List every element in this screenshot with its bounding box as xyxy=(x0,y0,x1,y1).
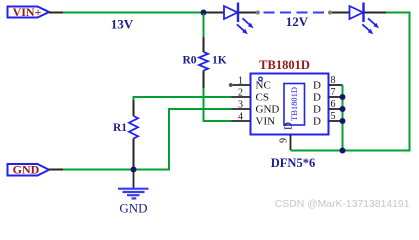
IC U1 TB1801D xyxy=(251,58,329,135)
svg-text:D: D xyxy=(313,104,321,116)
port GND xyxy=(8,163,50,177)
port VIN+ xyxy=(8,5,50,19)
pin 3 stub xyxy=(232,108,251,110)
svg-text:13V: 13V xyxy=(111,17,134,32)
svg-text:TB1801D: TB1801D xyxy=(289,87,299,121)
wire VIN to junction xyxy=(63,12,204,14)
svg-text:4: 4 xyxy=(238,112,243,123)
svg-text:R1: R1 xyxy=(113,122,127,134)
ground symbol xyxy=(118,172,149,215)
wire R0 to pin VIN xyxy=(204,88,232,121)
pin 2 stub xyxy=(232,96,251,98)
svg-text:1: 1 xyxy=(238,76,243,87)
svg-text:GND: GND xyxy=(256,104,280,116)
wire GND net to pin3 xyxy=(63,109,232,170)
svg-text:TB1801D: TB1801D xyxy=(259,58,310,72)
pin 1 stub with no-connect dot xyxy=(233,84,251,86)
svg-text:GND: GND xyxy=(13,163,40,177)
wire VIN stub xyxy=(49,12,63,14)
wire right rail to pin9 row xyxy=(291,13,410,151)
node dot left of dashed wire xyxy=(256,11,260,15)
wire junction down to R0 xyxy=(203,14,205,38)
pin 5 stub xyxy=(329,120,343,122)
svg-text:8: 8 xyxy=(331,75,336,86)
resistor R0 xyxy=(199,52,208,70)
svg-text:6: 6 xyxy=(331,99,336,110)
LED D2 xyxy=(350,3,380,35)
node dot right of dashed wire xyxy=(328,11,332,15)
pin 7 stub xyxy=(329,96,343,98)
wire R0 top stub xyxy=(203,37,205,52)
pin 6 stub xyxy=(329,108,343,110)
svg-text:R0: R0 xyxy=(182,55,196,67)
wire CS net xyxy=(134,97,232,101)
wire GND stub xyxy=(49,169,63,171)
resistor R1 xyxy=(129,116,138,139)
LED D1 xyxy=(224,3,254,35)
wire LED1 cathode xyxy=(239,12,256,14)
wire LED2 cathode xyxy=(365,12,387,14)
svg-text:D: D xyxy=(313,116,321,128)
junction dot top xyxy=(201,10,207,16)
svg-text:VIN: VIN xyxy=(256,116,276,128)
junction dot pin5 xyxy=(340,118,346,124)
svg-text:VIN+: VIN+ xyxy=(13,5,42,19)
junction dot bottom xyxy=(131,167,137,173)
svg-text:5: 5 xyxy=(331,111,336,122)
pin 4 stub xyxy=(232,120,251,122)
svg-text:NC: NC xyxy=(256,80,271,92)
svg-text:D: D xyxy=(283,122,295,130)
wire LED1 anode xyxy=(206,12,224,14)
svg-text:CS: CS xyxy=(256,92,269,104)
svg-text:D: D xyxy=(313,92,321,104)
svg-text:1K: 1K xyxy=(212,55,227,67)
svg-text:9: 9 xyxy=(279,138,290,143)
svg-text:3: 3 xyxy=(238,100,243,111)
wire R1 top stub xyxy=(133,100,135,116)
svg-text:CSDN @MarK-13713814191: CSDN @MarK-13713814191 xyxy=(275,199,410,210)
wire R0 bottom stub xyxy=(203,71,205,89)
wire LED2 anode xyxy=(332,12,350,14)
junction dot pin6 xyxy=(340,106,346,112)
junction dot pin9 row xyxy=(340,148,346,154)
pin 9 stub xyxy=(290,135,292,151)
wire right bus vertical xyxy=(342,85,344,151)
svg-text:D: D xyxy=(313,80,321,92)
svg-text:GND: GND xyxy=(119,201,147,216)
svg-text:DFN5*6: DFN5*6 xyxy=(271,156,315,170)
pin 8 stub xyxy=(329,84,343,86)
dashed wire 12V xyxy=(264,12,327,14)
svg-text:7: 7 xyxy=(331,87,336,98)
svg-text:2: 2 xyxy=(238,88,243,99)
svg-text:12V: 12V xyxy=(286,14,309,29)
wire R1 bottom stub xyxy=(133,139,135,168)
junction dot pin7 xyxy=(340,94,346,100)
